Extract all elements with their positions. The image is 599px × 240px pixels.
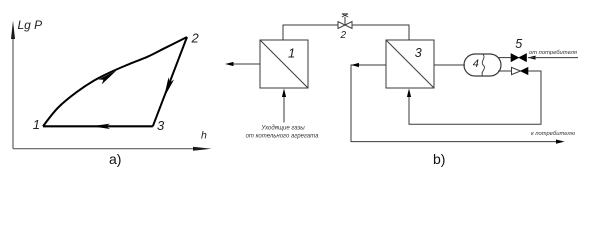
inlet arrowhead from consumer xyxy=(528,56,536,60)
outlet pipe left of 1 xyxy=(231,63,260,65)
flow arrow on 2-3 xyxy=(164,77,174,98)
svg-text:от потребителя: от потребителя xyxy=(529,50,577,56)
supply pipe from condenser 3 to consumer xyxy=(351,65,557,142)
valve 2 xyxy=(338,14,352,29)
process line 1-2 compression curve xyxy=(43,37,187,126)
pipe from consumer xyxy=(528,57,578,59)
svg-text:Lg P: Lg P xyxy=(18,18,43,32)
svg-text:h: h xyxy=(201,130,207,142)
svg-text:Уходящие газы: Уходящие газы xyxy=(260,125,305,131)
flue gas inlet arrowhead xyxy=(282,89,286,98)
condenser 3 xyxy=(386,40,434,88)
svg-text:3: 3 xyxy=(415,46,422,60)
horizontal axis h xyxy=(13,147,212,151)
svg-text:4: 4 xyxy=(473,58,479,70)
process line 3-1 xyxy=(43,125,153,127)
svg-text:к потребителю: к потребителю xyxy=(531,131,576,137)
svg-text:от котельного агрегата: от котельного агрегата xyxy=(246,134,320,140)
pipe tank 4 to valve 5 xyxy=(498,57,511,59)
svg-text:2: 2 xyxy=(191,31,200,46)
arrowhead into condenser 3 xyxy=(407,89,411,98)
svg-text:b): b) xyxy=(433,151,445,167)
return loop pipe to condenser 3 xyxy=(409,71,541,124)
arrowhead to consumer xyxy=(556,140,565,144)
svg-text:1: 1 xyxy=(33,117,40,132)
pipe valve 2 to 3 xyxy=(352,25,409,40)
flue gas inlet pipe xyxy=(283,93,285,123)
flow arrowhead at corner xyxy=(351,63,359,67)
process line 2-3 expansion xyxy=(153,37,187,126)
storage tank 4 xyxy=(464,54,501,76)
pipe tank 4 to check valve xyxy=(498,70,511,72)
svg-text:3: 3 xyxy=(157,118,165,133)
vertical axis lg P xyxy=(11,21,15,149)
svg-text:2: 2 xyxy=(340,30,347,41)
check valve xyxy=(512,67,529,74)
svg-text:5: 5 xyxy=(515,37,522,51)
pipe from 1 to valve 2 xyxy=(283,25,338,40)
heat exchanger 1 (flue gas) xyxy=(260,40,308,88)
valve 5 xyxy=(511,54,527,62)
flow arrow on 1-2 xyxy=(98,71,116,85)
pipe 3 to tank 4 xyxy=(434,64,465,66)
svg-text:a): a) xyxy=(109,151,121,167)
flow arrow on 3-1 xyxy=(92,124,110,129)
outlet arrowhead xyxy=(225,62,234,66)
svg-text:1: 1 xyxy=(288,45,295,60)
